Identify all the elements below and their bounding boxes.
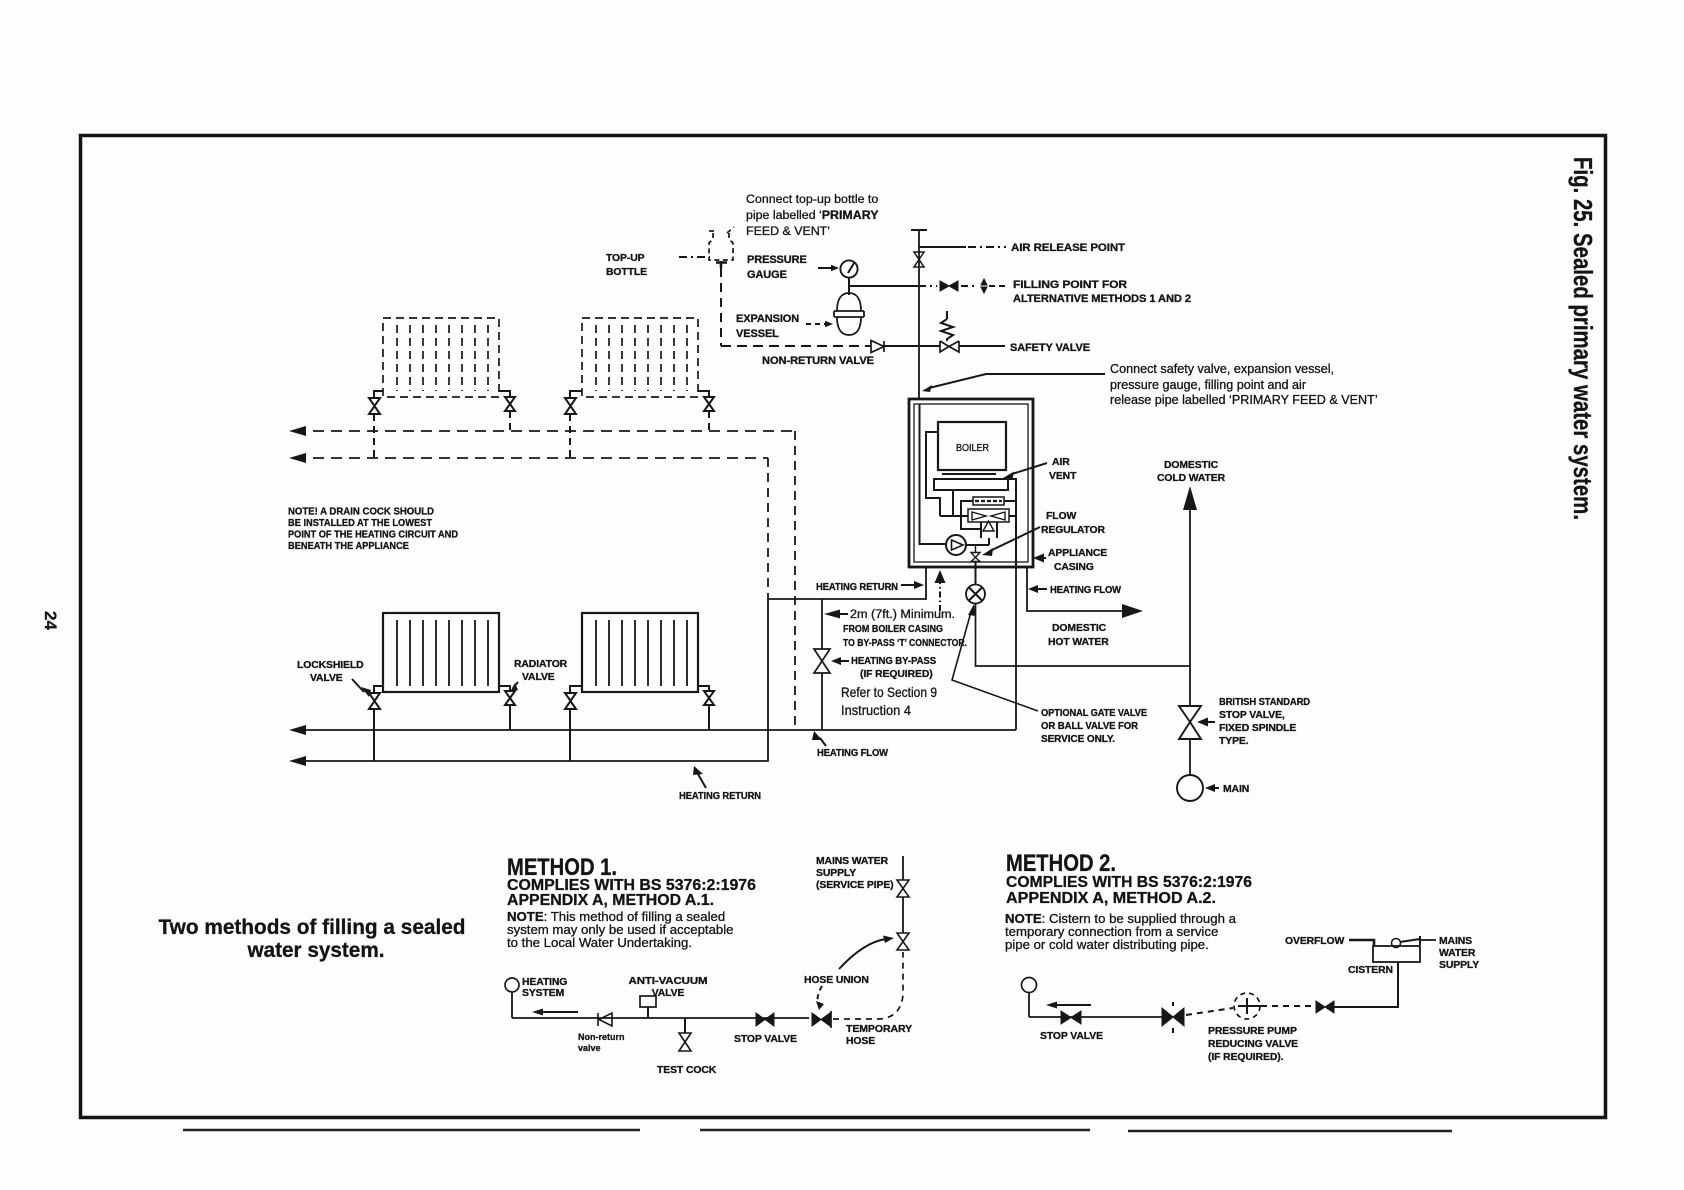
R2 valve drop (dashed) <box>708 411 710 431</box>
appliance casing inner <box>914 404 1028 562</box>
cold water riser <box>1189 508 1191 707</box>
safety valve SV <box>940 341 959 352</box>
note 2m minimum <box>843 609 967 649</box>
arrow to gauge <box>818 267 832 269</box>
svg-text:SUPPLY: SUPPLY <box>1439 960 1479 971</box>
2m minimum wire (dash-dot) <box>939 578 941 613</box>
R3 valve drop <box>509 705 511 730</box>
svg-text:MAINS: MAINS <box>1439 936 1472 947</box>
R4 lockshield drop <box>569 709 571 761</box>
leader heating return bottom <box>698 774 706 788</box>
svg-text:Connect top-up bottle to: Connect top-up bottle to <box>746 192 878 206</box>
vessel stem <box>848 286 850 295</box>
top-up bottle (dashed) <box>709 227 734 260</box>
svg-text:OPTIONAL GATE VALVE: OPTIONAL GATE VALVE <box>1041 708 1147 719</box>
svg-text:AIR RELEASE POINT: AIR RELEASE POINT <box>1011 242 1125 254</box>
feed pipe inside casing <box>920 404 946 544</box>
svg-text:HEATING: HEATING <box>522 977 567 988</box>
label PRESSURE GAUGE <box>747 254 807 281</box>
label HEATING BY-PASS <box>851 656 936 680</box>
heating flow main <box>295 729 1016 731</box>
label LOCKSHIELD VALVE <box>297 660 364 684</box>
svg-text:(SERVICE PIPE): (SERVICE PIPE) <box>816 880 894 891</box>
leader to pipe <box>929 374 1105 388</box>
heading METHOD 2 <box>1005 850 1252 952</box>
drop flow riser (dashed) <box>794 431 796 729</box>
svg-text:VALVE: VALVE <box>522 672 555 683</box>
arrow heating return top <box>901 584 915 586</box>
svg-text:VENT: VENT <box>1049 471 1077 482</box>
heat exchanger bar <box>934 479 1008 490</box>
BS stop valve <box>1179 706 1201 739</box>
label APPLIANCE CASING <box>1048 548 1107 573</box>
svg-text:PRESSURE: PRESSURE <box>747 254 807 266</box>
M1 heating system circle <box>505 978 519 992</box>
M2 stop valve <box>1061 1011 1081 1024</box>
arrow heating flow main <box>289 725 306 735</box>
wire NRV-to-safety-valve <box>884 345 940 347</box>
R1 lockshield drop (dashed) <box>373 414 375 458</box>
svg-text:RADIATOR: RADIATOR <box>514 659 568 670</box>
svg-text:pipe or cold water distributin: pipe or cold water distributing pipe. <box>1005 937 1209 952</box>
svg-text:APPENDIX A, METHOD A.1.: APPENDIX A, METHOD A.1. <box>507 892 714 909</box>
filling point connector <box>981 279 987 293</box>
non-return valve NRV <box>871 341 884 353</box>
svg-text:MAINS WATER: MAINS WATER <box>816 856 889 867</box>
label TOP-UP BOTTLE <box>606 253 647 278</box>
venturi left pipe <box>961 501 981 529</box>
label MAINS WATER SUPPLY <box>816 856 894 891</box>
svg-text:PRESSURE PUMP: PRESSURE PUMP <box>1208 1026 1297 1037</box>
R2 lockshield drop (dashed) <box>569 414 571 458</box>
M2 drop <box>1028 992 1030 1017</box>
pressure gauge PG <box>840 260 857 277</box>
svg-text:HEATING BY-PASS: HEATING BY-PASS <box>851 656 936 667</box>
svg-text:STOP VALVE: STOP VALVE <box>734 1034 797 1045</box>
M1 hose union <box>812 1013 830 1026</box>
air vent pipe <box>1008 479 1016 567</box>
M2 flow arrow <box>1049 1004 1091 1006</box>
arrow upper flow <box>289 426 306 436</box>
radiator R2 (dashed) <box>582 318 698 397</box>
R2 radiator valve <box>698 391 714 411</box>
svg-text:FILLING POINT FOR: FILLING POINT FOR <box>1013 279 1127 291</box>
temporary hose (dashed) <box>833 952 903 1019</box>
wire SV-to-label <box>959 345 1005 347</box>
arrow main <box>1213 787 1219 789</box>
radiator R1 (dashed) <box>383 318 499 397</box>
svg-text:VALVE: VALVE <box>310 673 343 684</box>
T bowtie <box>972 512 1005 520</box>
appliance casing outer <box>909 399 1033 567</box>
R4 radiator valve <box>698 686 714 705</box>
filling point valve <box>940 281 958 291</box>
M1 curved leader to valve <box>839 939 886 969</box>
pump outlet <box>966 544 989 546</box>
venturi right pipe <box>1004 500 1016 502</box>
M1 drop from circle <box>511 992 513 1018</box>
R3 radiator valve <box>499 686 515 705</box>
svg-text:VESSEL: VESSEL <box>736 328 779 340</box>
svg-text:DOMESTIC: DOMESTIC <box>1164 460 1219 471</box>
label FLOW REGULATOR <box>1041 511 1106 536</box>
T connector box <box>968 509 1009 522</box>
leader air vent <box>1012 463 1047 474</box>
heading two methods <box>159 915 466 962</box>
arrow domestic hot water <box>1122 604 1143 618</box>
label RADIATOR VALVE <box>514 659 568 683</box>
svg-text:Fig. 25. Sealed primary water: Fig. 25. Sealed primary water system. <box>1568 157 1598 520</box>
T up triangle <box>983 521 994 531</box>
svg-text:ALTERNATIVE METHODS 1 AND 2: ALTERNATIVE METHODS 1 AND 2 <box>1013 293 1191 305</box>
svg-text:HOSE UNION: HOSE UNION <box>804 975 869 986</box>
upper flow main (dashed) <box>295 430 795 432</box>
upper return main (dashed) <box>295 457 768 459</box>
M2 valve 3 <box>1316 1001 1334 1013</box>
note connect top-up bottle <box>746 192 879 238</box>
R1 valve drop (dashed) <box>509 411 511 431</box>
svg-text:pressure gauge, filling point: pressure gauge, filling point and air <box>1110 378 1306 392</box>
R1 lockshield valve <box>369 391 383 414</box>
wire gauge-to-pipe <box>849 285 919 287</box>
bottle stem <box>716 261 727 268</box>
DHW pipe <box>1027 567 1122 611</box>
svg-text:AIR: AIR <box>1052 457 1070 468</box>
svg-text:APPLIANCE: APPLIANCE <box>1048 548 1107 559</box>
M2 pipe left <box>1029 1016 1162 1018</box>
M1 mains pipe <box>902 897 904 933</box>
border frame <box>81 136 1606 1118</box>
riser to main <box>1189 739 1191 775</box>
T right port <box>1009 515 1016 517</box>
heating flow pipe from casing <box>1015 567 1017 730</box>
svg-text:LOCKSHIELD: LOCKSHIELD <box>297 660 364 671</box>
note refer to section <box>841 684 937 718</box>
M2 spindle valve <box>1162 1008 1184 1026</box>
label FILLING POINT <box>1013 279 1191 305</box>
safety valve SV spring <box>941 311 953 341</box>
svg-text:OR BALL VALVE FOR: OR BALL VALVE FOR <box>1041 721 1139 732</box>
air release valve <box>914 252 924 267</box>
svg-text:2m (7ft.) Minimum.: 2m (7ft.) Minimum. <box>850 609 955 621</box>
heating return main <box>295 599 768 761</box>
R1 radiator valve <box>499 391 515 411</box>
svg-text:HEATING RETURN: HEATING RETURN <box>816 582 898 593</box>
bar drop pipe <box>940 490 968 516</box>
wire bottle-to-NRV (dashed) <box>721 345 871 347</box>
label MAINS WATER SUPPLY M2 <box>1439 936 1479 971</box>
M2 dashed to pump <box>1186 1008 1233 1015</box>
pipe top tick <box>911 229 927 231</box>
svg-text:Two methods of filling a seale: Two methods of filling a sealed <box>159 915 466 939</box>
leader heating flow bottom <box>820 738 826 746</box>
R4 valve drop <box>708 705 710 730</box>
by-pass pipe lower <box>821 673 823 730</box>
svg-text:Refer to Section 9: Refer to Section 9 <box>841 684 937 700</box>
cold feed pipe <box>976 604 1191 667</box>
overflow pipe <box>1349 940 1374 946</box>
scan shadow line below frame <box>183 1130 1452 1131</box>
venturi <box>973 497 1004 505</box>
arrow heating flow top <box>1036 588 1047 590</box>
filling point wire (dash-dot) <box>919 285 977 287</box>
label AIR VENT <box>1049 457 1077 482</box>
M2 dashed pump to valve <box>1261 1005 1313 1007</box>
heat exchanger thin line <box>942 473 996 475</box>
svg-text:COMPLIES WITH BS 5376:2:1976: COMPLIES WITH BS 5376:2:1976 <box>1006 874 1252 891</box>
arrow 2m up <box>935 570 946 583</box>
boiler left pipe <box>926 432 940 516</box>
expansion vessel EV <box>834 293 864 335</box>
svg-text:CISTERN: CISTERN <box>1348 965 1393 976</box>
arrow domestic cold water <box>1183 486 1197 510</box>
M1 non-return valve <box>598 1013 612 1026</box>
svg-text:BOILER: BOILER <box>956 443 989 454</box>
svg-text:REGULATOR: REGULATOR <box>1041 525 1106 536</box>
svg-text:HEATING FLOW: HEATING FLOW <box>1050 585 1121 596</box>
by-pass pipe upper <box>821 599 823 649</box>
label DOMESTIC HOT WATER <box>1048 623 1109 648</box>
svg-text:NOTE! A DRAIN COCK SHOULD: NOTE! A DRAIN COCK SHOULD <box>288 507 434 518</box>
leader optional gate valve <box>952 612 1038 711</box>
optional gate valve <box>966 585 985 604</box>
svg-text:CASING: CASING <box>1054 562 1094 573</box>
svg-text:HOSE: HOSE <box>846 1036 875 1047</box>
svg-text:REDUCING VALVE: REDUCING VALVE <box>1208 1039 1298 1050</box>
M1 stop valve <box>756 1013 774 1026</box>
arrow appliance casing <box>1041 557 1046 559</box>
wire bottle-down (dashed) <box>720 268 722 346</box>
cistern float valve <box>1392 939 1401 948</box>
air release wire <box>919 246 966 248</box>
mains supply stub <box>1421 939 1436 941</box>
svg-text:BOTTLE: BOTTLE <box>606 267 647 278</box>
label EXPANSION VESSEL <box>736 313 799 340</box>
M1 main pipe <box>512 1017 809 1019</box>
R3 lockshield drop <box>373 709 375 761</box>
svg-text:NON-RETURN VALVE: NON-RETURN VALVE <box>762 355 874 367</box>
svg-text:SYSTEM: SYSTEM <box>522 988 564 999</box>
svg-text:VALVE: VALVE <box>652 988 685 999</box>
label HEATING SYSTEM <box>522 977 567 999</box>
main circle <box>1177 775 1203 801</box>
note connect safety valve <box>1110 362 1378 407</box>
svg-text:STOP VALVE,: STOP VALVE, <box>1219 710 1285 721</box>
M1 mains upper valve <box>897 880 909 897</box>
svg-text:FLOW: FLOW <box>1046 511 1076 522</box>
leader radiator valve <box>513 682 518 688</box>
radiator R4 (solid) <box>582 613 698 692</box>
M1 mains lower valve <box>897 933 909 950</box>
svg-text:GAUGE: GAUGE <box>747 269 787 281</box>
label DOMESTIC COLD WATER <box>1157 460 1226 484</box>
arrow heating by-pass <box>838 660 849 662</box>
gauge stem <box>848 278 850 286</box>
svg-text:TEMPORARY: TEMPORARY <box>846 1024 912 1035</box>
cistern <box>1373 946 1420 962</box>
wire label-to-bottle (dash-dot) <box>679 256 710 258</box>
label TEMPORARY HOSE <box>846 1024 912 1047</box>
drop return riser (dashed) <box>767 458 769 599</box>
svg-text:HOT WATER: HOT WATER <box>1048 637 1109 648</box>
M2 pipe to cistern <box>1334 962 1398 1007</box>
M1 mains pipe top <box>902 856 904 880</box>
svg-text:release pipe labelled ‘PRIMARY: release pipe labelled ‘PRIMARY FEED & VE… <box>1110 393 1378 407</box>
svg-text:SAFETY VALVE: SAFETY VALVE <box>1010 342 1090 354</box>
label OPTIONAL GATE VALVE <box>1041 708 1147 745</box>
M2 heating system circle <box>1022 978 1037 993</box>
M1 anti-vacuum valve <box>640 996 656 1007</box>
M2 pressure pump (dashed circle) <box>1234 993 1260 1019</box>
svg-text:ANTI-VACUUM: ANTI-VACUUM <box>629 976 708 987</box>
radiator R3 (solid) <box>383 613 499 692</box>
label ANTI-VACUUM VALVE <box>629 976 708 999</box>
leader hose union (dashed) <box>818 986 823 1004</box>
heading METHOD 1 <box>507 854 756 950</box>
svg-text:(IF REQUIRED): (IF REQUIRED) <box>860 669 933 680</box>
svg-text:SERVICE ONLY.: SERVICE ONLY. <box>1041 734 1115 745</box>
note drain cock <box>288 507 458 553</box>
svg-text:TYPE.: TYPE. <box>1219 736 1249 747</box>
R4 lockshield valve <box>565 686 582 709</box>
svg-text:TEST COCK: TEST COCK <box>657 1065 717 1076</box>
heating by-pass valve <box>814 649 830 673</box>
svg-text:(IF REQUIRED).: (IF REQUIRED). <box>1208 1052 1284 1063</box>
M1 test cock stem <box>684 1018 686 1033</box>
label BRITISH STANDARD STOP VALVE <box>1219 697 1311 747</box>
svg-text:BENEATH THE APPLIANCE: BENEATH THE APPLIANCE <box>288 541 409 552</box>
leader lockshield <box>352 679 364 692</box>
svg-text:Instruction 4: Instruction 4 <box>841 702 911 718</box>
svg-text:STOP VALVE: STOP VALVE <box>1040 1031 1103 1042</box>
svg-text:APPENDIX A, METHOD A.2.: APPENDIX A, METHOD A.2. <box>1006 890 1216 907</box>
svg-text:BRITISH STANDARD: BRITISH STANDARD <box>1219 697 1311 708</box>
svg-text:to the Local Water Undertaking: to the Local Water Undertaking. <box>507 935 692 950</box>
svg-text:MAIN: MAIN <box>1223 784 1249 795</box>
svg-text:HEATING FLOW: HEATING FLOW <box>817 748 888 759</box>
svg-text:FIXED SPINDLE: FIXED SPINDLE <box>1219 723 1296 734</box>
R3 lockshield valve <box>369 686 383 709</box>
R2 lockshield valve <box>565 391 582 414</box>
arrow 2m left <box>824 610 840 619</box>
label non-return valve <box>578 1032 625 1053</box>
M1 test cock <box>679 1033 691 1051</box>
svg-text:METHOD 2.: METHOD 2. <box>1006 850 1116 877</box>
heating return to casing <box>768 567 926 599</box>
label PRESSURE PUMP <box>1208 1026 1298 1063</box>
svg-text:pipe labelled ‘PRIMARY: pipe labelled ‘PRIMARY <box>746 208 879 222</box>
svg-text:Non-return: Non-return <box>578 1032 625 1042</box>
arrow heating return main <box>289 756 306 766</box>
svg-text:24: 24 <box>41 611 60 630</box>
svg-text:HEATING RETURN: HEATING RETURN <box>679 791 761 802</box>
svg-text:TO BY-PASS ‘T’ CONNECTOR.: TO BY-PASS ‘T’ CONNECTOR. <box>843 637 967 649</box>
arrow to vessel (dashed) <box>806 323 825 325</box>
svg-text:TOP-UP: TOP-UP <box>606 253 645 264</box>
svg-text:water system.: water system. <box>247 938 385 962</box>
flow regulator <box>971 545 980 584</box>
svg-text:OVERFLOW: OVERFLOW <box>1285 936 1345 947</box>
svg-text:FROM BOILER CASING: FROM BOILER CASING <box>843 623 943 635</box>
svg-text:DOMESTIC: DOMESTIC <box>1052 623 1107 634</box>
boiler <box>938 422 1006 470</box>
pump <box>946 535 966 555</box>
svg-text:POINT OF THE HEATING CIRCUIT A: POINT OF THE HEATING CIRCUIT AND <box>288 530 458 541</box>
svg-text:FEED & VENT’: FEED & VENT’ <box>746 224 830 238</box>
cold feed pipe upper <box>975 561 977 584</box>
T channel <box>981 522 997 545</box>
svg-text:COLD WATER: COLD WATER <box>1157 473 1226 484</box>
leader flow regulator <box>990 527 1040 551</box>
svg-text:valve: valve <box>578 1043 601 1053</box>
primary feed and vent pipe <box>918 230 920 399</box>
svg-text:BE INSTALLED AT THE LOWEST: BE INSTALLED AT THE LOWEST <box>288 518 433 529</box>
M1 flow arrow <box>535 1011 578 1013</box>
arrow BS stop valve <box>1206 721 1215 723</box>
arrow upper return <box>289 453 306 463</box>
svg-text:EXPANSION: EXPANSION <box>736 313 799 325</box>
svg-text:WATER: WATER <box>1439 948 1476 959</box>
svg-text:Connect safety valve, expansio: Connect safety valve, expansion vessel, <box>1110 362 1334 376</box>
svg-text:SUPPLY: SUPPLY <box>816 868 856 879</box>
